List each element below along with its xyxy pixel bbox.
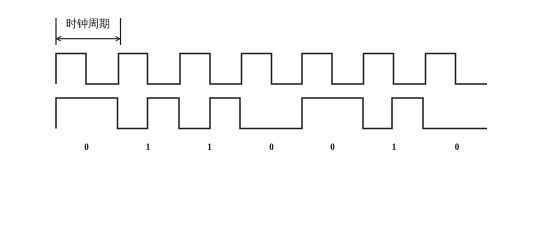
svg-text:0: 0 (330, 142, 335, 152)
svg-text:0: 0 (84, 142, 89, 152)
svg-text:1: 1 (146, 142, 151, 152)
svg-text:0: 0 (269, 142, 274, 152)
svg-text:1: 1 (207, 142, 212, 152)
svg-text:0: 0 (455, 142, 460, 152)
svg-text:1: 1 (392, 142, 397, 152)
